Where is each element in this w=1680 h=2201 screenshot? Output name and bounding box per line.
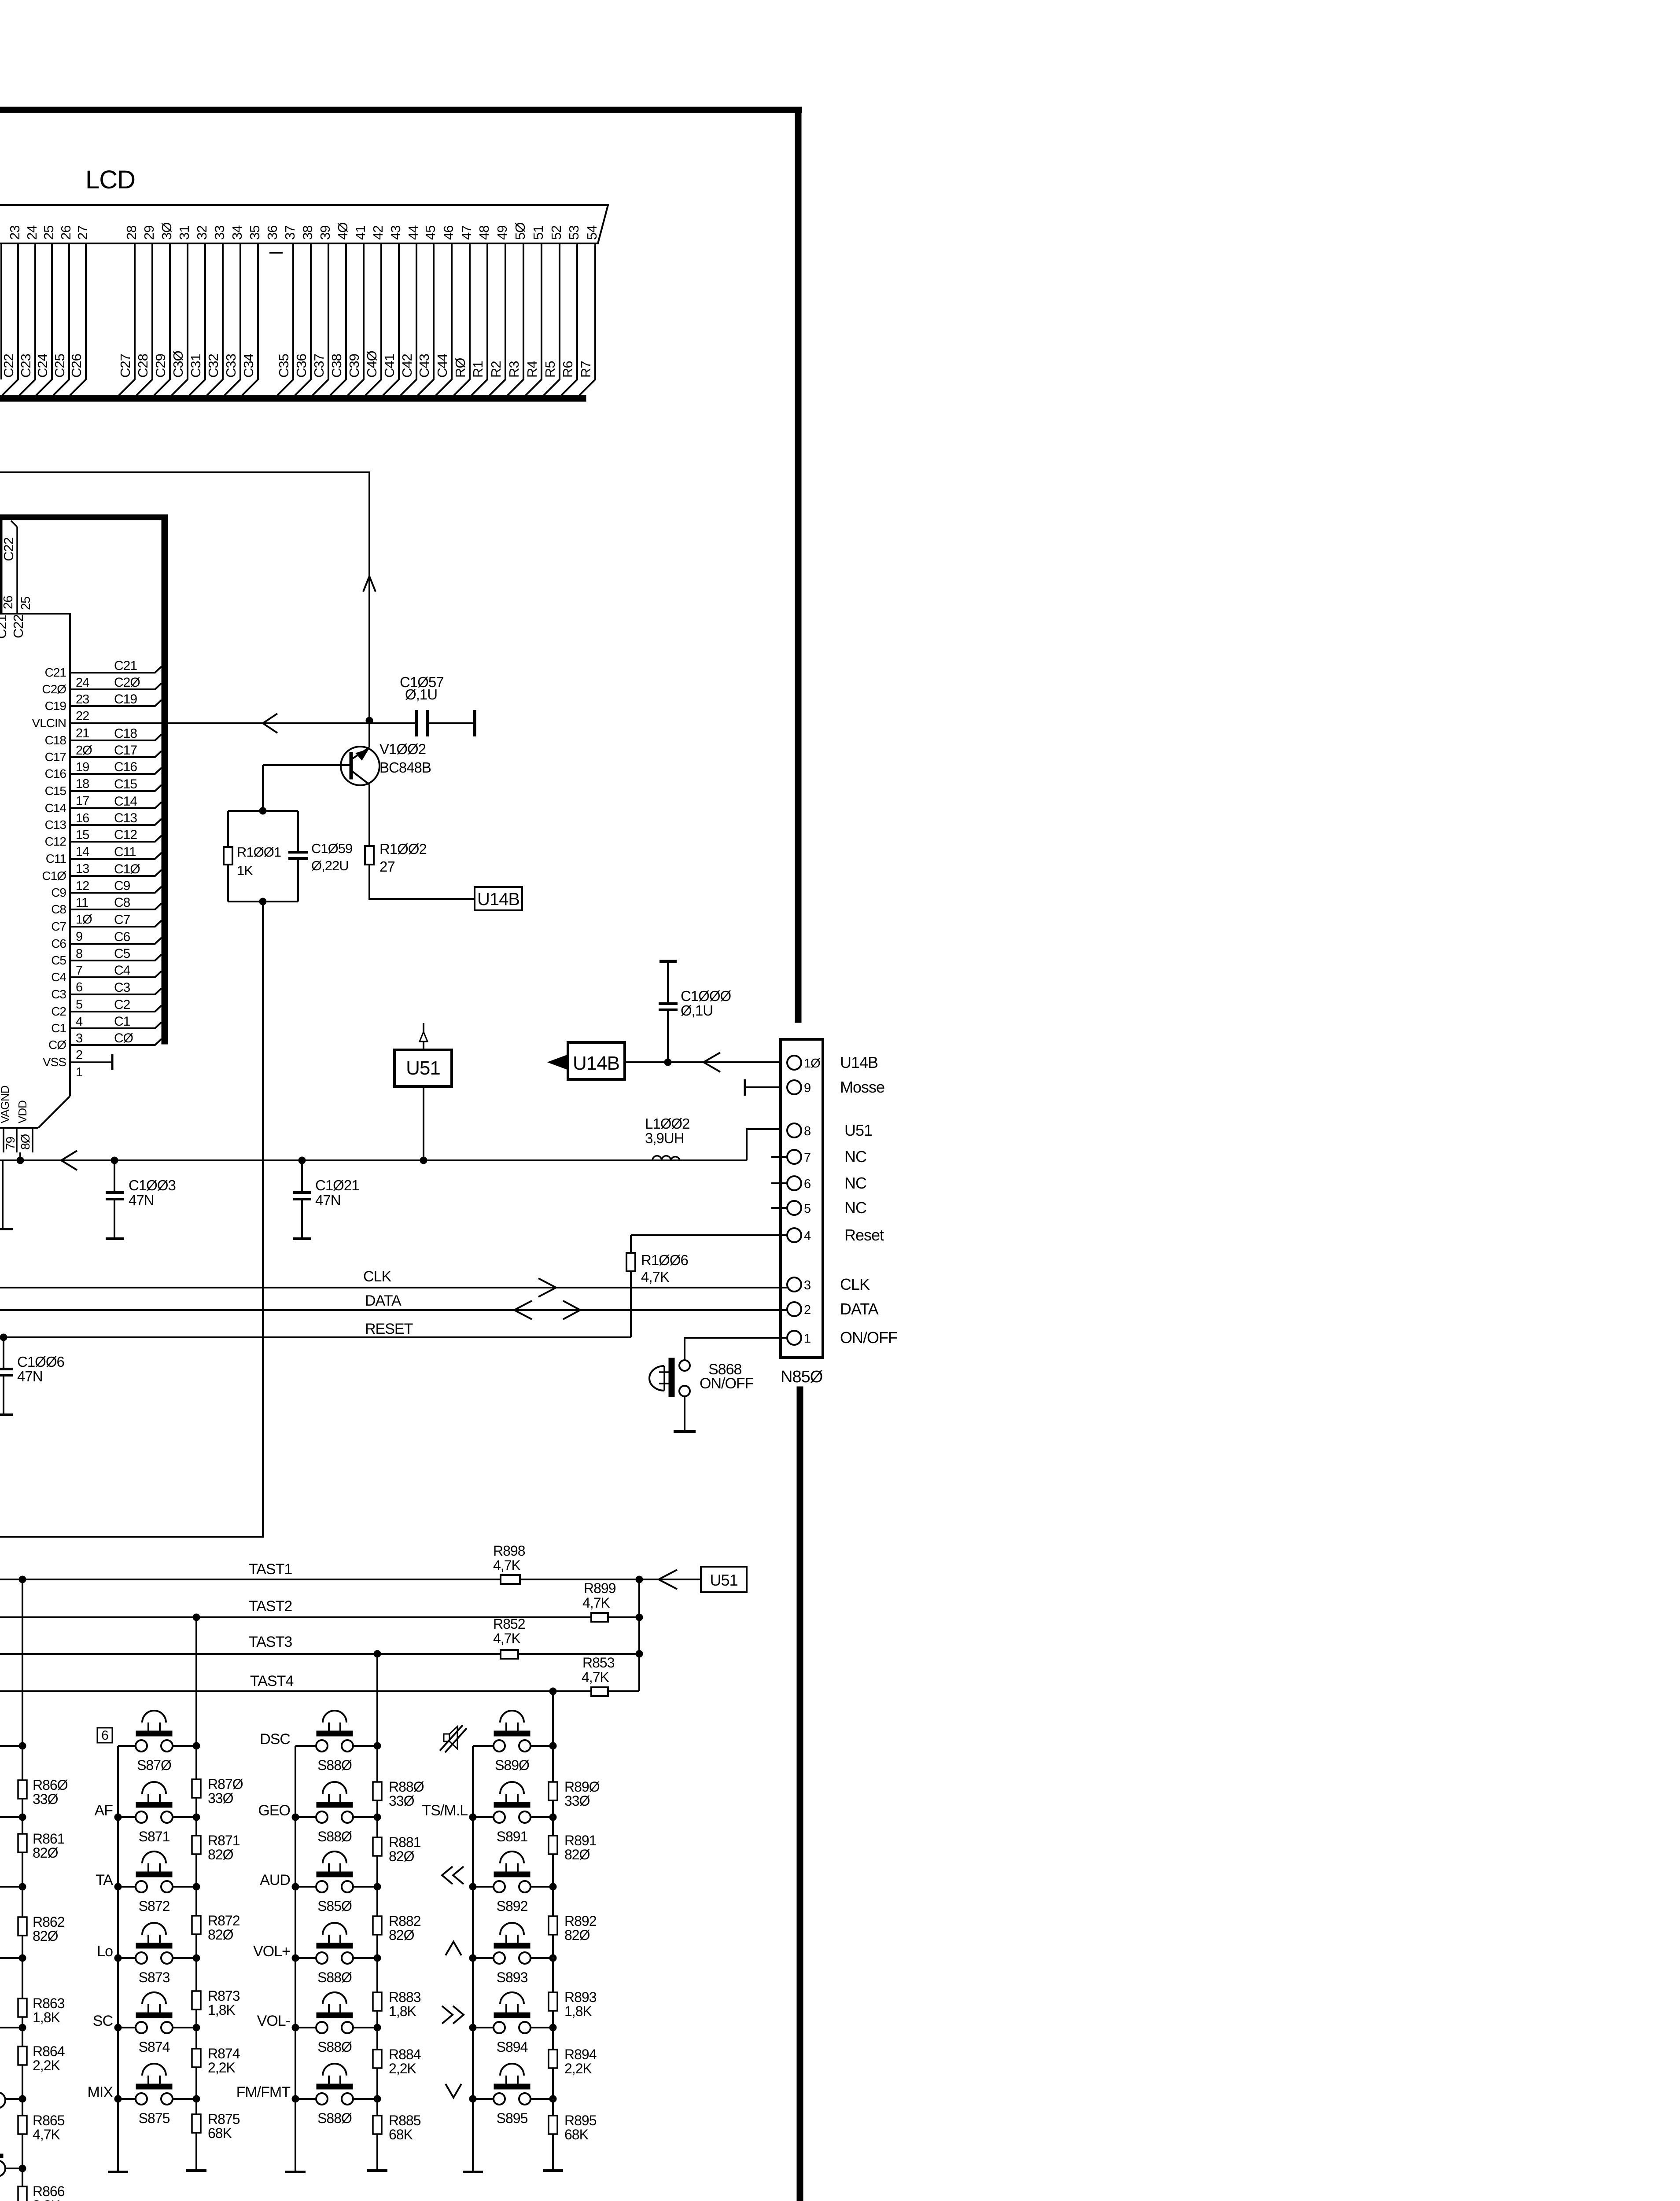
svg-text:R89Ø: R89Ø (564, 1779, 600, 1795)
IC pin 24 row (C21) (45, 659, 162, 690)
resistor R865 4.7K (18, 2113, 65, 2142)
node ladder row 1 junction (0, 1742, 26, 1749)
switch S875 (column 1 row 6) (114, 2064, 200, 2126)
svg-text:R865: R865 (33, 2113, 65, 2128)
svg-text:1K: 1K (237, 863, 253, 878)
capacitor C1059 0.22U (288, 811, 352, 902)
IC top pin number 25 (19, 597, 33, 610)
resistor R895 68K (549, 2113, 597, 2142)
svg-text:1Ø: 1Ø (804, 1056, 820, 1071)
svg-text:S892: S892 (497, 1898, 528, 1914)
keypad row label AF (95, 1802, 113, 1819)
node bottom rail junction (259, 898, 266, 905)
cut-off switch contact at page edge (row MIX) (0, 2092, 5, 2108)
svg-text:R2: R2 (488, 361, 504, 378)
svg-text:C8: C8 (51, 902, 66, 916)
svg-text:37: 37 (282, 226, 298, 240)
svg-text:C2Ø: C2Ø (114, 675, 140, 690)
LCD pin 27 wire and net C26 (69, 226, 90, 395)
svg-text:TS/M.L: TS/M.L (422, 1802, 468, 1819)
LCD pin 45 wire and net C43 (416, 226, 438, 395)
svg-text:35: 35 (247, 226, 262, 240)
IC bottom pin boxes 79/80 (4, 1128, 33, 1152)
svg-text:R899: R899 (584, 1580, 616, 1596)
svg-text:VLCIN: VLCIN (32, 716, 66, 730)
svg-text:27: 27 (75, 226, 90, 240)
LCD display label (85, 166, 135, 194)
svg-text:C2: C2 (51, 1005, 66, 1018)
capacitor C1057 (400, 674, 444, 736)
svg-text:TAST4: TAST4 (250, 1673, 293, 1689)
svg-text:47N: 47N (17, 1368, 43, 1384)
svg-text:CLK: CLK (363, 1268, 391, 1285)
capacitor C1021 47N (293, 1157, 359, 1239)
svg-text:TAST2: TAST2 (249, 1598, 292, 1615)
keypad row label mute icon (440, 1725, 467, 1752)
ground below column 3 left bus (463, 2171, 483, 2173)
resistor R866 8.2K (18, 2183, 65, 2201)
svg-text:U14B: U14B (840, 1053, 878, 1071)
svg-text:R1: R1 (470, 361, 486, 378)
LCD pin 37 wire and net C35 (276, 226, 298, 395)
wire S868 to ground (684, 1396, 685, 1431)
svg-text:C5: C5 (114, 946, 130, 961)
svg-text:R6: R6 (560, 361, 575, 378)
svg-text:S88Ø: S88Ø (317, 1829, 352, 1844)
svg-text:14: 14 (76, 845, 89, 859)
svg-text:VAGND: VAGND (0, 1086, 11, 1123)
IC top pin 26 box left edge (cut) (0, 520, 2, 613)
svg-text:C36: C36 (294, 354, 309, 378)
svg-text:CLK: CLK (840, 1275, 870, 1293)
svg-text:C1ØØ3: C1ØØ3 (129, 1177, 176, 1193)
node VLCIN junction (366, 717, 373, 724)
svg-text:TA: TA (96, 1872, 113, 1888)
up arrow above U51 tag (420, 1023, 427, 1050)
IC pin 20 row (C18) (45, 726, 162, 758)
svg-text:C11: C11 (114, 845, 136, 859)
svg-text:6: 6 (76, 980, 82, 994)
svg-text:C1Ø59: C1Ø59 (311, 841, 352, 856)
svg-text:Mosse: Mosse (840, 1078, 884, 1096)
svg-text:C15: C15 (45, 784, 66, 798)
LCD pin 38 wire and net C36 (294, 226, 315, 395)
svg-text:4,7K: 4,7K (582, 1669, 609, 1685)
net label C22 below wire (11, 615, 26, 638)
svg-text:17: 17 (76, 794, 89, 808)
LCD pin 52 wire and net R5 (542, 226, 564, 395)
LCD pin 51 wire and net R4 (524, 226, 546, 395)
svg-text:18: 18 (76, 777, 89, 791)
ground below column 1 left bus (108, 2171, 128, 2173)
cut-off switch contact at page edge (lower) (0, 2154, 5, 2176)
svg-text:S87Ø: S87Ø (137, 1757, 171, 1773)
connector N850 pin 7 (NC) (771, 1148, 866, 1166)
R1001/C1059 bottom rail (228, 901, 298, 902)
svg-text:Ø,22U: Ø,22U (311, 858, 349, 873)
wire V1002 collector to R1002 (368, 784, 370, 846)
resistor R860 330 (18, 1777, 68, 1807)
svg-text:25: 25 (19, 597, 33, 610)
svg-text:82Ø: 82Ø (389, 1848, 414, 1864)
svg-text:8Ø: 8Ø (18, 1134, 32, 1150)
keypad row label VOL+ (253, 1943, 290, 1960)
svg-text:44: 44 (405, 225, 421, 240)
svg-text:2: 2 (76, 1048, 82, 1062)
LCD pin 32 wire and net C31 (188, 226, 210, 395)
svg-text:C18: C18 (114, 726, 137, 741)
IC pin number 79 (4, 1137, 17, 1150)
svg-text:68K: 68K (208, 2125, 232, 2141)
ground below column 3 right bus (543, 2169, 563, 2172)
keypad row label FM/FMT (236, 2084, 291, 2101)
svg-text:1,8K: 1,8K (208, 2002, 235, 2018)
svg-text:C13: C13 (45, 818, 66, 832)
ground below S868 (674, 1430, 696, 1433)
switch S868 ON/OFF (649, 1358, 754, 1397)
svg-text:C19: C19 (114, 692, 137, 707)
svg-text:4Ø: 4Ø (335, 222, 350, 240)
svg-text:C44: C44 (435, 353, 450, 378)
schematic border frame (right edge upper segment) (795, 107, 801, 1023)
svg-text:C27: C27 (118, 354, 133, 378)
svg-text:Lo: Lo (97, 1943, 113, 1960)
VDD supply rail (0, 1159, 747, 1161)
IC pin 16 row (C14) (45, 794, 162, 825)
svg-text:5Ø: 5Ø (512, 222, 528, 240)
svg-text:12: 12 (76, 879, 89, 893)
switch S872 (column 1 row 3) (114, 1851, 200, 1914)
svg-text:C1ØØ6: C1ØØ6 (17, 1354, 64, 1370)
inductor L1002 3.9UH (645, 1115, 689, 1160)
svg-text:C1Ø: C1Ø (114, 862, 140, 876)
svg-text:2,2K: 2,2K (564, 2061, 592, 2076)
svg-text:C3: C3 (114, 980, 130, 995)
wire N850 pin 9 stub with terminator (Mosse) (745, 1079, 787, 1096)
svg-text:41: 41 (353, 226, 368, 240)
IC pin 21 row (VLCIN) (32, 716, 89, 740)
svg-text:C25: C25 (52, 354, 67, 378)
svg-text:26: 26 (1, 596, 15, 609)
svg-text:3: 3 (76, 1031, 82, 1045)
svg-text:S873: S873 (139, 1969, 170, 1985)
svg-text:5: 5 (76, 997, 82, 1012)
LCD pin 49 wire and net R2 (488, 226, 510, 395)
IC block right edge bar (thick) (162, 520, 168, 1044)
svg-text:1Ø: 1Ø (76, 913, 92, 927)
svg-text:C26: C26 (69, 354, 84, 378)
svg-text:DATA: DATA (365, 1292, 402, 1309)
svg-text:82Ø: 82Ø (389, 1927, 414, 1943)
keypad row label TA (96, 1872, 113, 1888)
svg-text:S875: S875 (139, 2110, 170, 2126)
wire base to R1001/C1059 top rail (262, 765, 264, 811)
node top rail junction (259, 807, 266, 814)
svg-text:R3: R3 (506, 361, 522, 378)
LCD pin 25 wire and net C24 (35, 226, 56, 395)
svg-text:C11: C11 (46, 852, 66, 865)
node TAST2/R899 junction (636, 1614, 643, 1621)
svg-text:68K: 68K (564, 2127, 589, 2142)
switch S880 (column 2 row 1) (295, 1711, 381, 1773)
resistor R875 68K (192, 2111, 240, 2141)
resistor R1002 27 (365, 841, 427, 875)
LCD pin 44 wire and net C42 (399, 225, 421, 395)
svg-text:NC: NC (844, 1148, 866, 1166)
svg-text:C37: C37 (311, 354, 327, 378)
svg-text:ON/OFF: ON/OFF (840, 1329, 897, 1347)
svg-text:R853: R853 (582, 1655, 615, 1671)
svg-text:24: 24 (76, 676, 89, 690)
svg-text:C1Ø21: C1Ø21 (315, 1177, 359, 1193)
keypad row label SC (93, 2013, 113, 2029)
svg-text:NC: NC (844, 1199, 866, 1217)
switch S892 (column 3 row 3) (469, 1851, 556, 1914)
IC pin 17 row (C15) (45, 777, 162, 808)
resistor R871 820 (192, 1833, 240, 1862)
svg-text:36: 36 (265, 226, 280, 240)
svg-text:C22: C22 (11, 615, 26, 638)
svg-text:S88Ø: S88Ø (317, 2039, 352, 2055)
arrowhead on CLK line (538, 1278, 556, 1297)
svg-text:AF: AF (95, 1802, 113, 1819)
svg-text:39: 39 (317, 226, 333, 240)
svg-text:R1ØØ2: R1ØØ2 (379, 841, 427, 857)
U51 signal tag box 3 (701, 1567, 747, 1592)
wire U51 tag to VDD rail (420, 1086, 427, 1164)
svg-text:V1ØØ2: V1ØØ2 (379, 741, 426, 757)
U51 signal tag box (394, 1050, 452, 1086)
svg-text:C13: C13 (114, 811, 137, 825)
IC pin 6 row (C4) (51, 963, 162, 994)
svg-text:U51: U51 (710, 1571, 737, 1589)
svg-text:2,2K: 2,2K (208, 2060, 235, 2076)
wire N850 pin 1 to S868 (685, 1338, 787, 1360)
svg-text:79: 79 (4, 1137, 17, 1150)
svg-text:R7: R7 (578, 361, 593, 378)
svg-text:R875: R875 (208, 2111, 240, 2127)
LCD pin 48 wire and net R1 (470, 226, 492, 395)
svg-text:CØ: CØ (48, 1038, 66, 1052)
resistor R894 2.2K (549, 2046, 597, 2076)
svg-text:53: 53 (566, 226, 582, 240)
IC pin 5 row (C3) (51, 980, 162, 1012)
svg-text:DSC: DSC (260, 1731, 290, 1748)
resistor R885 68K (373, 2113, 421, 2142)
svg-text:C14: C14 (45, 801, 66, 815)
svg-text:6: 6 (804, 1177, 811, 1191)
resistor R892 820 (549, 1913, 597, 1943)
svg-text:8,2K: 8,2K (33, 2197, 60, 2201)
switch S880 (column 2 row 6) (292, 2064, 381, 2126)
arrowhead on VLCIN wire (263, 714, 277, 733)
svg-text:C2: C2 (114, 997, 130, 1012)
LCD pin 41 wire and net C39 (346, 226, 368, 395)
svg-text:DATA: DATA (840, 1300, 879, 1318)
svg-text:VOL+: VOL+ (253, 1943, 290, 1960)
svg-text:TAST3: TAST3 (249, 1634, 292, 1650)
svg-text:C1ØØØ: C1ØØØ (681, 988, 731, 1004)
svg-text:CØ: CØ (114, 1031, 133, 1045)
svg-text:42: 42 (370, 226, 386, 240)
svg-text:13: 13 (76, 862, 89, 876)
svg-text:8: 8 (76, 947, 82, 961)
svg-text:25: 25 (41, 226, 56, 240)
svg-text:22: 22 (76, 709, 89, 723)
IC pin 23 row (C20) (42, 675, 162, 707)
svg-text:Ø,1U: Ø,1U (405, 686, 437, 703)
svg-text:9: 9 (804, 1081, 811, 1095)
svg-text:BC848B: BC848B (379, 759, 431, 776)
ground below column 1 right bus (186, 2169, 206, 2172)
svg-text:R866: R866 (33, 2183, 65, 2199)
svg-text:S85Ø: S85Ø (317, 1898, 352, 1914)
connector N850 pin 9 (Mosse) (787, 1078, 884, 1096)
resistor R853 4.7K (582, 1655, 639, 1696)
out-arrow left of U14B tag (548, 1055, 568, 1070)
svg-text:R893: R893 (564, 1989, 597, 2005)
svg-text:R88Ø: R88Ø (389, 1779, 424, 1795)
svg-text:46: 46 (441, 226, 456, 240)
svg-text:R1ØØ6: R1ØØ6 (641, 1252, 688, 1268)
svg-text:U51: U51 (406, 1057, 440, 1079)
LCD signal bus (thick line) (0, 395, 586, 401)
IC pin 4 row (C2) (51, 997, 162, 1029)
svg-text:1,8K: 1,8K (33, 2010, 60, 2025)
svg-text:C39: C39 (346, 354, 362, 378)
wire CLK line (0, 1268, 787, 1288)
keypad row label GEO (258, 1802, 290, 1819)
svg-text:4: 4 (804, 1229, 811, 1243)
IC pin 12 row (C10) (42, 862, 162, 893)
svg-text:C5: C5 (51, 953, 66, 967)
svg-text:11: 11 (76, 896, 88, 910)
svg-text:LCD: LCD (85, 166, 135, 194)
LCD pin 26 wire and net C25 (52, 226, 74, 395)
wire TAST1 ladder bus (19, 1576, 26, 2201)
switch S880 (column 2 row 2) (292, 1782, 381, 1844)
node pin80 junction (17, 1152, 24, 1164)
wire R1002 to U14B tag (369, 865, 475, 899)
connector N850 pin 10 (U14B) (787, 1053, 878, 1071)
svg-text:C7: C7 (51, 920, 66, 933)
svg-text:C18: C18 (45, 733, 66, 747)
svg-text:82Ø: 82Ø (33, 1845, 58, 1861)
svg-text:Ø,1U: Ø,1U (681, 1002, 713, 1019)
svg-text:47N: 47N (129, 1192, 154, 1208)
svg-text:VOL-: VOL- (257, 2013, 290, 2029)
svg-text:C4: C4 (51, 970, 66, 984)
svg-text:C41: C41 (382, 354, 397, 378)
svg-text:C3Ø: C3Ø (170, 350, 186, 378)
svg-text:4,7K: 4,7K (33, 2127, 60, 2142)
svg-text:R884: R884 (389, 2046, 421, 2062)
svg-text:33Ø: 33Ø (389, 1793, 414, 1809)
svg-text:Reset: Reset (844, 1226, 884, 1244)
svg-text:26: 26 (58, 226, 74, 240)
IC pin 13 row (C11) (46, 845, 162, 876)
connector N850 reference label (781, 1368, 823, 1386)
svg-text:R885: R885 (389, 2113, 421, 2128)
svg-text:VSS: VSS (43, 1055, 66, 1069)
svg-text:3Ø: 3Ø (159, 222, 174, 240)
resistor R883 1.8K (373, 1989, 421, 2019)
svg-text:45: 45 (423, 226, 438, 240)
net label C21 (cut at page edge) (0, 615, 9, 639)
svg-text:8: 8 (804, 1124, 811, 1138)
svg-text:38: 38 (300, 226, 315, 240)
svg-text:R87Ø: R87Ø (208, 1776, 243, 1792)
switch S874 (column 1 row 5) (114, 1992, 200, 2055)
wire L1002 to N850 pin 8 (747, 1129, 787, 1160)
svg-text:R864: R864 (33, 2043, 65, 2059)
svg-text:R898: R898 (493, 1543, 525, 1559)
svg-text:7: 7 (804, 1151, 811, 1165)
svg-text:S895: S895 (497, 2110, 528, 2126)
svg-text:82Ø: 82Ø (33, 1928, 58, 1944)
svg-text:16: 16 (76, 811, 89, 825)
node ladder lower junction (0, 2165, 26, 2172)
svg-text:FM/FMT: FM/FMT (236, 2084, 291, 2101)
resistor R864 2.2K (18, 2043, 65, 2073)
LCD pin 34 wire and net C33 (223, 225, 245, 395)
resistor R881 820 (373, 1834, 421, 1864)
svg-text:C32: C32 (206, 354, 221, 378)
svg-text:MIX: MIX (88, 2084, 113, 2101)
wire C22 from IC top pins (0, 614, 70, 1096)
svg-text:23: 23 (76, 692, 89, 707)
LCD pin 28 wire and net C27 (118, 226, 139, 395)
LCD pin 54 wire and net R7 (578, 225, 600, 395)
svg-text:R4: R4 (524, 361, 540, 378)
svg-text:52: 52 (549, 226, 564, 240)
svg-text:33Ø: 33Ø (564, 1793, 590, 1809)
arrowheads on DATA line (514, 1301, 580, 1319)
switch S893 (column 3 row 4) (469, 1923, 556, 1985)
arrowhead on VDD rail (61, 1151, 77, 1170)
connector N850 pin 3 (CLK) (787, 1275, 870, 1293)
IC pin 22 row (C19) (45, 692, 162, 723)
svg-text:2,2K: 2,2K (33, 2057, 60, 2073)
LCD pin 35 wire and net C34 (241, 226, 262, 395)
LCD pin 40 wire and net C38 (329, 222, 350, 395)
svg-text:S88Ø: S88Ø (317, 2110, 352, 2126)
svg-text:C42: C42 (399, 354, 415, 378)
svg-text:33Ø: 33Ø (208, 1790, 233, 1806)
connector N850 pin 4 (Reset) (787, 1226, 884, 1244)
svg-text:C35: C35 (276, 354, 291, 378)
svg-text:C1: C1 (51, 1021, 66, 1035)
svg-text:U14B: U14B (573, 1053, 619, 1074)
wire N850 pin 4 Reset (631, 1234, 787, 1236)
wire keypad column 3 left bus (472, 1746, 474, 2171)
wire U14B tag to N850 pin 10 (625, 1059, 787, 1066)
resistor R870 330 (192, 1776, 243, 1806)
LCD pin 22 wire (cut at page edge) (0, 243, 2, 379)
LCD pin 30 wire and net C29 (153, 222, 174, 395)
svg-text:1: 1 (804, 1332, 811, 1346)
svg-text:R891: R891 (564, 1833, 597, 1848)
svg-text:C33: C33 (223, 354, 239, 378)
LCD pin 36 (no connection dash) (265, 226, 283, 253)
wire keypad column 2 left bus (295, 1746, 296, 2171)
IC pin 3 row (C1) (51, 1014, 162, 1045)
wire keypad column 1 right bus (193, 1614, 200, 2170)
node ladder row 5 junction (0, 2024, 26, 2031)
switch S870 (column 1 row 1) (118, 1711, 200, 1773)
svg-text:31: 31 (177, 226, 192, 240)
capacitor C1000 0.1U (659, 961, 731, 1062)
